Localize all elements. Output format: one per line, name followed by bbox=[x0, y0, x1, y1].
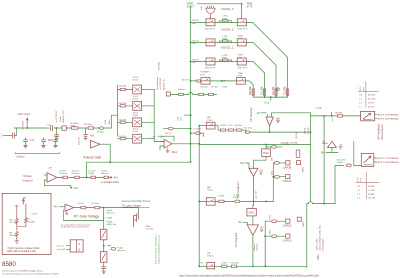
wire top horizontal net bbox=[198, 3, 242, 5]
svg-text:external 220pF to 56k, OK4: external 220pF to 56k, OK4 bbox=[318, 224, 321, 250]
op-amp U2 volume gain stage bbox=[91, 141, 111, 163]
svg-text:+9V: +9V bbox=[339, 145, 343, 147]
PGV outer box bbox=[2, 193, 51, 254]
resistor Rin 300mm bbox=[178, 89, 185, 95]
svg-text:19.260m: 19.260m bbox=[84, 124, 93, 126]
label PWB above Q1b bbox=[238, 55, 244, 60]
labels right of chain bbox=[106, 210, 116, 226]
op-amp U9 feedback buffer bbox=[322, 141, 343, 153]
svg-text:+9V: +9V bbox=[260, 227, 264, 229]
transistor switch Q3a bbox=[206, 19, 215, 26]
svg-text:215.9k: 215.9k bbox=[283, 144, 290, 146]
pad CAP2 external bbox=[297, 161, 305, 173]
svg-text:(1.387k: (1.387k bbox=[220, 125, 227, 127]
wire PGV out chain bbox=[74, 207, 122, 209]
svg-text:8T03: 8T03 bbox=[207, 190, 213, 192]
resistor R21 bbox=[84, 124, 94, 129]
volume ladder row VOL0 bbox=[118, 129, 155, 143]
volume ladder row VOL1 bbox=[118, 112, 155, 126]
svg-text:Volume Gain: Volume Gain bbox=[83, 156, 101, 160]
op-amp U6 BP integrator bbox=[249, 168, 263, 176]
wire summer out bbox=[269, 126, 271, 132]
svg-text:CAP2B: CAP2B bbox=[283, 165, 292, 169]
svg-text:+9V: +9V bbox=[259, 170, 263, 172]
cap and ground bottom bbox=[102, 262, 106, 273]
svg-text:AUDIO_OUT: AUDIO_OUT bbox=[62, 109, 65, 122]
svg-text:AUDIO_IN: AUDIO_IN bbox=[163, 79, 166, 90]
audio in pad bbox=[156, 76, 171, 96]
label GND 8T73 bbox=[247, 3, 253, 9]
svg-text:LP Integrator: LP Integrator bbox=[234, 232, 238, 247]
ref label BP bbox=[240, 162, 244, 165]
junction top bbox=[241, 3, 243, 5]
svg-text:S: S bbox=[78, 242, 80, 246]
voice row 2 bbox=[190, 40, 206, 45]
svg-text:8 (0.40m: 8 (0.40m bbox=[230, 263, 239, 265]
LP switch row bbox=[198, 252, 214, 269]
resistor zigzag Rz3 bbox=[15, 232, 18, 241]
label PWB above Q2b bbox=[238, 36, 244, 41]
svg-text:560.30m: 560.30m bbox=[201, 87, 209, 89]
svg-text:+1.5Ek: +1.5Ek bbox=[220, 263, 228, 265]
svg-text:PolyD: PolyD bbox=[337, 162, 343, 164]
svg-text:220k: 220k bbox=[269, 230, 271, 234]
transistor switch Q2a bbox=[206, 39, 215, 46]
svg-text:220k: 220k bbox=[271, 171, 273, 175]
svg-text:219.98k: 219.98k bbox=[158, 61, 160, 70]
transistor switch Qext_b bbox=[236, 78, 245, 85]
+5V label in box bbox=[22, 197, 27, 204]
svg-text:PolyB: PolyB bbox=[89, 173, 95, 175]
svg-text:EXT.6/P4BB2: EXT.6/P4BB2 bbox=[378, 118, 400, 120]
net label near bus bbox=[178, 114, 192, 121]
label above Qext_b bbox=[238, 73, 244, 78]
svg-text:8T73: 8T73 bbox=[200, 74, 206, 76]
svg-text:8T73: 8T73 bbox=[247, 5, 253, 8]
svg-text:8T03: 8T03 bbox=[207, 120, 213, 122]
svg-text:8V07 8T73: 8V07 8T73 bbox=[238, 28, 249, 30]
resistor box Rb2 bbox=[100, 252, 107, 263]
svg-text:G nd: G nd bbox=[264, 102, 270, 105]
svg-text:PolyB: PolyB bbox=[233, 197, 239, 199]
svg-text:EXT.6/P4BB3: EXT.6/P4BB3 bbox=[378, 162, 400, 164]
op-amp U1 HP summer bbox=[249, 107, 280, 126]
svg-text:8T03: 8T03 bbox=[133, 79, 139, 81]
resistor Rext bbox=[182, 79, 201, 82]
wire dac2 to opamp2 bbox=[252, 216, 254, 225]
resistor Ra2 bbox=[209, 93, 214, 95]
vertical red labels left column bbox=[296, 127, 310, 139]
svg-text:working as temperature sensor: working as temperature sensor bbox=[158, 235, 161, 264]
svg-text:68B1Ohm: 68B1Ohm bbox=[106, 224, 116, 226]
svg-text:NMF wall of amadpa 9 2dC: NMF wall of amadpa 9 2dC bbox=[7, 250, 36, 253]
svg-text:6581: 6581 bbox=[317, 254, 320, 260]
resistor Rbp 5.280k bbox=[218, 195, 225, 202]
svg-text:HP: HP bbox=[207, 116, 211, 119]
wire CAP2 rail bbox=[272, 163, 274, 202]
wire mixer out bbox=[172, 143, 199, 145]
HP chain resistors bbox=[215, 125, 246, 132]
svg-text:231.38k: 231.38k bbox=[272, 86, 275, 95]
svg-text:51.53k: 51.53k bbox=[308, 127, 310, 134]
svg-text:CAP2: CAP2 bbox=[301, 166, 304, 172]
wire ladder left rail bbox=[117, 85, 119, 136]
wire dac to opamp bbox=[246, 156, 267, 168]
wire lp return vertical bbox=[306, 204, 308, 267]
op-amp U8 LP integrator bbox=[247, 225, 264, 235]
op-amp gate funnel U10 bbox=[201, 5, 215, 18]
svg-text:Ref: Ref bbox=[114, 177, 118, 180]
CAP1A branch bbox=[264, 230, 291, 242]
svg-text:8V07 8T73: 8V07 8T73 bbox=[205, 68, 216, 70]
svg-text:45.270k: 45.270k bbox=[368, 99, 376, 101]
svg-text:+9V: +9V bbox=[276, 117, 281, 120]
svg-text:19x70%: 19x70% bbox=[256, 243, 258, 250]
wire voice1 out bbox=[246, 62, 264, 98]
capacitor C10 10u bbox=[47, 124, 53, 130]
resistor oval Rfb bbox=[244, 128, 253, 134]
svg-text:70.3Mk: 70.3Mk bbox=[368, 194, 376, 196]
svg-text:CAP1A: CAP1A bbox=[283, 239, 292, 243]
svg-text:47.87k: 47.87k bbox=[368, 103, 375, 105]
svg-text:(Resonance): (Resonance) bbox=[380, 125, 384, 140]
svg-text:VOICE_3: VOICE_3 bbox=[221, 7, 234, 11]
wire mixer rail down bbox=[198, 126, 200, 267]
vertical labels near LP out bbox=[254, 243, 259, 250]
svg-text:values based on the 8580R5 pol: values based on the 8580R5 polygon pictu… bbox=[2, 269, 44, 272]
HP switch row bbox=[207, 116, 213, 122]
svg-text:49.36m: 49.36m bbox=[97, 132, 104, 134]
svg-text:54.97k: 54.97k bbox=[368, 107, 375, 109]
CAP2A branch bbox=[271, 171, 291, 183]
oval on LP loop bbox=[0, 0, 1, 1]
label 245.38k upper bbox=[315, 108, 334, 122]
voice row 3 bbox=[190, 20, 206, 25]
svg-text:100n: 100n bbox=[48, 139, 54, 142]
svg-text:4918:: 4918: bbox=[146, 226, 152, 228]
svg-text:AutoIso: AutoIso bbox=[15, 155, 25, 158]
LP row resistors bbox=[215, 263, 253, 268]
resistor zigzag Rz1 bbox=[15, 205, 18, 230]
resistor Ra1 bbox=[199, 93, 204, 95]
svg-text:1B2.2k: 1B2.2k bbox=[192, 59, 200, 61]
wire main supply rail bbox=[14, 127, 111, 129]
svg-text:wd_ctrl: wd_ctrl bbox=[57, 244, 64, 247]
svg-text:CAP1B: CAP1B bbox=[283, 224, 292, 228]
resistor R1p bbox=[220, 55, 232, 62]
svg-text:9.75k: 9.75k bbox=[32, 214, 38, 216]
resistor Rp2 bbox=[92, 203, 100, 209]
wire between boxes bbox=[103, 240, 105, 252]
svg-text:+37.22k: +37.22k bbox=[146, 229, 155, 231]
svg-text:FET close to freq control DACs: FET close to freq control DACs bbox=[155, 235, 158, 264]
wire voice2 out bbox=[246, 43, 276, 98]
svg-text:BP Feedback: BP Feedback bbox=[377, 123, 381, 139]
svg-text:USA 2200pF: USA 2200pF bbox=[322, 238, 325, 251]
transistor FET Q20 bbox=[134, 213, 155, 231]
op-amp U11 PGV buffer bbox=[65, 204, 74, 211]
svg-text:assuming 10k/square active are: assuming 10k/square active area and 5500… bbox=[2, 273, 59, 276]
resistor R3p 1.786 bbox=[220, 16, 232, 23]
potentiometer switch S1 bbox=[361, 111, 400, 120]
oval PolyB at LP top input bbox=[0, 0, 1, 1]
svg-text:BP: BP bbox=[207, 186, 211, 189]
svg-text:Ground: Ground bbox=[23, 179, 33, 183]
wire HP input bbox=[199, 125, 206, 127]
resistor Rv4 bbox=[101, 171, 109, 179]
svg-text:Diffusion: Diffusion bbox=[59, 173, 67, 175]
wire CAP1 rail bbox=[264, 221, 266, 266]
capacitor C11 below rail bbox=[55, 128, 59, 141]
svg-text:to-freq control DAC drivers: to-freq control DAC drivers bbox=[122, 200, 151, 203]
svg-text:10u 16V: 10u 16V bbox=[79, 136, 81, 145]
svg-text:EXT.7/P4BB1: EXT.7/P4BB1 bbox=[378, 115, 400, 117]
svg-text:+03.10k: +03.10k bbox=[368, 198, 376, 200]
wire hp fb vertical bbox=[323, 116, 325, 204]
svg-text:diffusion: diffusion bbox=[117, 250, 126, 252]
svg-text:+(0.10m: +(0.10m bbox=[77, 203, 85, 205]
wire ladder right rail bbox=[154, 90, 164, 142]
table resonance lower bbox=[356, 172, 379, 200]
wire between bbox=[215, 21, 237, 23]
svg-text:Mixer: Mixer bbox=[172, 151, 178, 154]
CAP2B branch bbox=[271, 157, 291, 169]
wire audio row with hop bbox=[170, 93, 216, 95]
resistor Rv1 bbox=[59, 171, 67, 179]
oval PolyB on LP in bbox=[0, 0, 1, 1]
wire ext out bbox=[245, 81, 253, 97]
svg-text:220k: 220k bbox=[269, 215, 271, 219]
transistor switch Q1b bbox=[237, 58, 246, 65]
svg-text:5.280k: 5.280k bbox=[218, 195, 225, 197]
oval resistor 845 bbox=[337, 159, 351, 166]
svg-text:Diffusion: Diffusion bbox=[72, 173, 80, 175]
wire ladder feed bbox=[111, 115, 117, 128]
svg-text:Sound board: Sound board bbox=[156, 76, 159, 89]
ref label LP bbox=[238, 221, 247, 225]
wire to FET bbox=[122, 208, 138, 213]
svg-text:Q: Q bbox=[78, 248, 80, 252]
pad AUX bbox=[56, 109, 66, 130]
note caps external vertical bbox=[315, 224, 324, 259]
svg-text:87k: 87k bbox=[200, 262, 203, 264]
svg-text:Ref: Ref bbox=[54, 206, 58, 209]
svg-text:127.88k: 127.88k bbox=[193, 129, 202, 131]
resistor oval on dac wire bbox=[266, 144, 290, 148]
flipflop box wd bbox=[57, 240, 84, 252]
resistor oval PolyB bbox=[233, 194, 241, 203]
svg-text:237.7k: 237.7k bbox=[165, 133, 172, 135]
svg-text:(84.50m: (84.50m bbox=[235, 125, 243, 127]
svg-text:8T03: 8T03 bbox=[133, 98, 139, 100]
svg-text:to amadpa DACs: to amadpa DACs bbox=[101, 181, 120, 184]
op-amp U3 mixer bbox=[152, 136, 178, 154]
svg-text:Ref: Ref bbox=[238, 221, 242, 224]
resistor Rv3 bbox=[89, 171, 97, 179]
svg-text:DAC: DAC bbox=[263, 151, 269, 155]
svg-text:(27.50m: (27.50m bbox=[211, 87, 219, 89]
BP switch row bbox=[198, 186, 215, 205]
svg-text:Ref: Ref bbox=[240, 162, 244, 165]
svg-text:+5V: +5V bbox=[90, 135, 95, 138]
vertical labels near ladder feed bbox=[105, 119, 111, 124]
svg-text:diffusion: diffusion bbox=[106, 212, 115, 214]
potentiometer switch S2 bbox=[361, 154, 400, 167]
node SUM top net label bbox=[187, 2, 195, 9]
transistor switch Qhp bbox=[206, 122, 215, 129]
EXT input row bbox=[200, 72, 210, 77]
decoupling caps group bbox=[15, 138, 59, 158]
svg-text:+5V: +5V bbox=[22, 197, 27, 200]
green fb box around PGV bbox=[64, 210, 104, 221]
wire summing bar bbox=[253, 96, 287, 98]
svg-text:8V07 8T73: 8V07 8T73 bbox=[238, 68, 249, 70]
transistor switch Q1a bbox=[206, 58, 215, 65]
vertical note FET temperature bbox=[155, 235, 161, 264]
svg-text:VOICE_2: VOICE_2 bbox=[221, 27, 234, 31]
wire feedback lower bbox=[87, 162, 191, 177]
wire BP input top bbox=[199, 145, 310, 149]
svg-text:1B2.2k: 1B2.2k bbox=[192, 20, 200, 22]
DAC U5 (BP) bbox=[262, 149, 271, 157]
transistor switch Q2b bbox=[237, 39, 246, 46]
svg-text:ca 4.7W DC: ca 4.7W DC bbox=[56, 110, 58, 122]
svg-text:CAP2A: CAP2A bbox=[283, 179, 292, 183]
resistor zigzag Rz2 bbox=[25, 204, 28, 227]
wire res to oval bbox=[335, 165, 361, 203]
svg-text:M2.50m: M2.50m bbox=[92, 203, 100, 205]
svg-text:300mm: 300mm bbox=[178, 89, 185, 91]
svg-text:PC Gate Voltage: PC Gate Voltage bbox=[74, 215, 99, 219]
svg-text:35.86%: 35.86% bbox=[368, 186, 375, 188]
svg-text:51.110k: 51.110k bbox=[368, 190, 376, 192]
resistor R20 bbox=[70, 123, 79, 129]
volume ladder row VOL2 bbox=[118, 96, 155, 110]
wire resonance bottom run bbox=[307, 202, 335, 204]
svg-text:+9V: +9V bbox=[48, 167, 52, 169]
svg-text:245.38k: 245.38k bbox=[335, 113, 344, 115]
svg-text:231.98k: 231.98k bbox=[284, 86, 287, 95]
svg-text:wd_m&2: wd_m&2 bbox=[57, 249, 66, 251]
svg-text:Ref: Ref bbox=[257, 112, 261, 115]
CAP1B branch bbox=[265, 215, 291, 227]
resistor box Rb1 bbox=[100, 229, 107, 240]
wire in box connect bbox=[17, 226, 26, 228]
svg-text:+9V/+12V: +9V/+12V bbox=[17, 112, 30, 116]
svg-text:36.970k: 36.970k bbox=[368, 94, 376, 96]
wire junction to voice3 switch bbox=[241, 4, 243, 19]
resistor R2p bbox=[220, 36, 232, 43]
svg-text:Ref: Ref bbox=[74, 187, 78, 190]
wire LP dac feed bbox=[252, 201, 255, 208]
svg-text:ZKC1870: ZKC1870 bbox=[23, 120, 25, 130]
wire PGV down bbox=[103, 208, 105, 230]
resistor vertical R31 bbox=[296, 150, 300, 157]
Ref label PGV opamp bbox=[54, 206, 65, 209]
wire LP out down bbox=[252, 235, 254, 266]
svg-text:1B2.2k: 1B2.2k bbox=[192, 40, 200, 42]
svg-text:HP Summer: HP Summer bbox=[249, 107, 253, 121]
table resonance upper bbox=[358, 82, 378, 109]
ref arrow end bbox=[111, 177, 118, 180]
mixer feedback resistor right bbox=[190, 129, 204, 137]
divider labels bbox=[9, 206, 38, 237]
wire voice3 out bbox=[246, 22, 287, 97]
svg-text:Virtual: Virtual bbox=[23, 174, 32, 178]
voice row 1 bbox=[190, 59, 206, 64]
svg-text:215.38k: 215.38k bbox=[290, 143, 299, 145]
svg-text:8T03: 8T03 bbox=[133, 115, 139, 117]
summing node vertical resistors bbox=[249, 86, 254, 96]
oval polys diffusion bbox=[108, 246, 127, 253]
svg-text:122.50k: 122.50k bbox=[119, 86, 128, 88]
svg-text:1.387k: 1.387k bbox=[222, 87, 228, 89]
svg-text:4.7u: 4.7u bbox=[30, 139, 35, 142]
svg-text:+7mA: +7mA bbox=[59, 116, 62, 122]
volume ladder row VOL3 bbox=[118, 77, 155, 94]
wire LP out loop right bbox=[253, 266, 307, 267]
svg-text:EXT.7/P4BB3: EXT.7/P4BB3 bbox=[378, 158, 400, 160]
svg-text:+5.38k: +5.38k bbox=[315, 108, 323, 110]
svg-text:8580: 8580 bbox=[2, 261, 16, 268]
mixer feedback resistor left bbox=[164, 127, 192, 135]
svg-text:Ref: Ref bbox=[321, 151, 325, 154]
svg-text:CAP1, CAP2: CAP1, CAP2 bbox=[315, 238, 318, 251]
op-amp U4 virtual ground bbox=[23, 167, 79, 190]
svg-text:the bits DACs to say 4.75V lev: the bits DACs to say 4.75V level here bbox=[61, 226, 89, 229]
svg-text:8kHz: 8kHz bbox=[109, 119, 111, 124]
svg-text:560.30m: 560.30m bbox=[244, 128, 253, 130]
svg-text:8T0.5: 8T0.5 bbox=[207, 256, 213, 258]
svg-text:20k W: 20k W bbox=[305, 127, 307, 134]
wire SUM vertical bus bbox=[190, 6, 192, 162]
svg-text:P5.1: P5.1 bbox=[15, 206, 20, 208]
net 3 stub bbox=[1, 128, 17, 138]
transistor switch Qext_a bbox=[201, 78, 210, 85]
wire BP row to LP bbox=[215, 200, 273, 202]
power label +9V/+12V bbox=[17, 112, 30, 130]
svg-text:wire 215: wire 215 bbox=[254, 190, 257, 199]
feedback pot input wire bbox=[311, 115, 361, 117]
wire hp out vertical bbox=[310, 116, 312, 202]
ground in box bbox=[15, 241, 19, 243]
svg-text:DAC: DAC bbox=[249, 210, 255, 214]
ref label right bbox=[321, 142, 354, 166]
resistor Rp1 bbox=[77, 203, 86, 209]
svg-text:8T03: 8T03 bbox=[133, 131, 139, 133]
wire vg out chain bbox=[57, 176, 111, 178]
stub to ref bbox=[270, 97, 272, 100]
wire HP out bus bbox=[250, 131, 311, 133]
transistor switch Q3b bbox=[237, 19, 246, 26]
wire BP out down bbox=[253, 176, 255, 201]
svg-text:CAP1: CAP1 bbox=[302, 221, 305, 227]
svg-text:TONEB/T: TONEB/T bbox=[200, 72, 210, 74]
svg-text:LP: LP bbox=[207, 252, 210, 255]
label BP Feedback vertical bbox=[377, 123, 385, 139]
svg-text:201.9?k: 201.9?k bbox=[182, 79, 191, 81]
svg-text:Diffusion: Diffusion bbox=[101, 173, 109, 175]
svg-text:+9V: +9V bbox=[160, 137, 164, 139]
svg-text:988.98k: 988.98k bbox=[249, 86, 252, 95]
svg-text:560.2k: 560.2k bbox=[296, 132, 298, 139]
resistor Rv2 bbox=[72, 171, 80, 179]
svg-text:231.38k: 231.38k bbox=[261, 86, 264, 95]
pad CAP1 external bbox=[297, 217, 305, 227]
resistor R30 on pot wire bbox=[335, 113, 344, 118]
svg-text:ca 4.7W DC: ca 4.7W DC bbox=[160, 77, 162, 89]
wire summer fb to right bbox=[272, 113, 311, 116]
